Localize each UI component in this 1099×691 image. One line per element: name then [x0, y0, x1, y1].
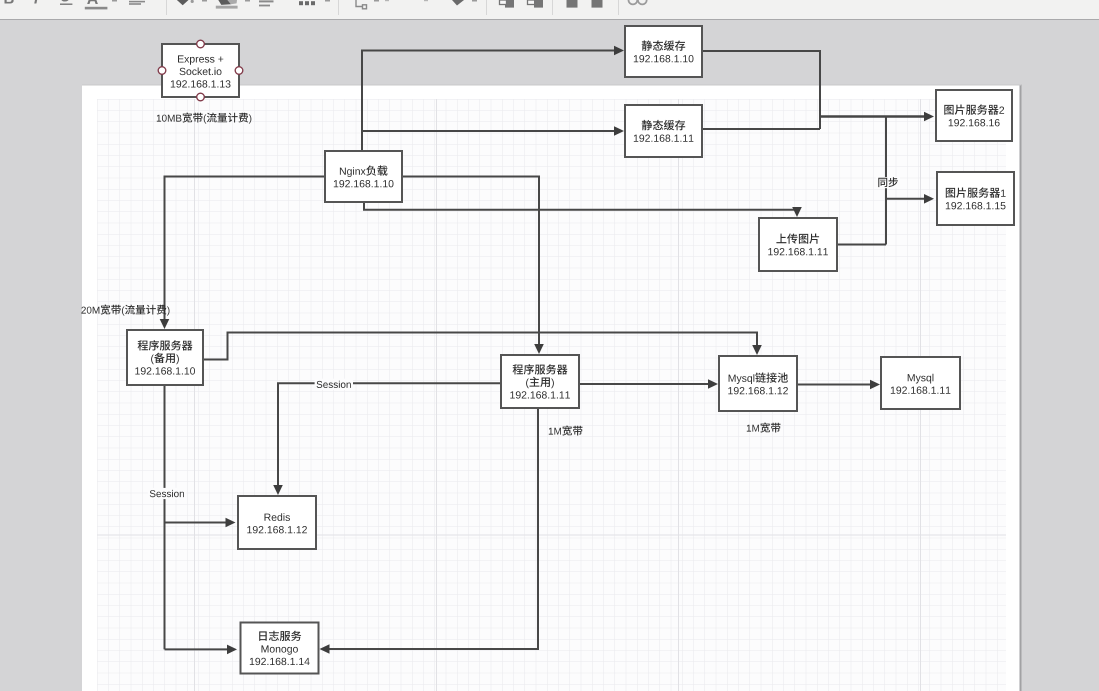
- toolbar icon group: [567, 0, 578, 8]
- node image-server-2: [936, 90, 1012, 141]
- wire nginx-left-to-backup: [165, 177, 326, 321]
- wire nginx-branch-to-cache2: [362, 130, 615, 132]
- wire nginx-bottom-to-upload: [364, 202, 797, 210]
- page sheet: [82, 85, 1022, 691]
- svg-text:B: B: [4, 0, 15, 8]
- label session-main: [315, 379, 353, 390]
- wire backup-down-spine: [164, 385, 166, 649]
- node log-server: [241, 623, 319, 674]
- label session-backup: [148, 488, 186, 499]
- node redis: [238, 496, 316, 549]
- arrowhead into mainserver top: [534, 344, 544, 354]
- arrowhead into pool top: [752, 345, 762, 355]
- svg-text:A: A: [87, 0, 99, 8]
- toolbar icon line color pencil: [216, 0, 238, 9]
- toolbar separator 4: [552, 0, 553, 15]
- node static-cache-2: [625, 105, 702, 157]
- label bandwidth-1m-pool: [747, 423, 781, 433]
- wire sync-vertical: [885, 117, 887, 245]
- wire merge-to-imgserver2: [820, 115, 924, 118]
- wire cache1-right-corner: [702, 51, 820, 129]
- node static-cache-1: [625, 26, 702, 77]
- toolbar icon line style dots: [299, 1, 315, 5]
- toolbar icon ungroup: [592, 0, 603, 8]
- node image-server-1: [937, 172, 1014, 225]
- wire spine-to-logserver: [165, 648, 229, 650]
- toolbar separator 2: [338, 0, 339, 15]
- arrowhead into upload top: [792, 207, 802, 217]
- arrowhead into pool left: [708, 379, 718, 389]
- toolbar icon remnant 1: [385, 0, 389, 1]
- arrowhead into mysql left: [870, 380, 880, 390]
- toolbar icon line width: [259, 0, 274, 6]
- toolbar separator 1: [166, 0, 167, 15]
- node app-server-backup: [127, 330, 203, 385]
- toolbar caret 6: [472, 0, 477, 2]
- arrowhead into logserver left: [227, 645, 237, 655]
- toolbar icon arrow style: [452, 0, 464, 6]
- wire cache2-right: [702, 128, 820, 130]
- node Express Socket.io: [158, 40, 243, 101]
- arrowhead into cache2: [614, 126, 624, 136]
- node nginx-lb: [325, 151, 402, 202]
- arrowhead into redis left: [226, 518, 236, 528]
- arrowhead into backupserver top: [160, 319, 170, 329]
- toolbar icon align: [129, 1, 145, 5]
- wire session-main-to-redis: [278, 383, 501, 488]
- label sync: [876, 177, 900, 188]
- toolbar separator 3: [486, 0, 487, 15]
- grid area: [97, 99, 1006, 691]
- wire upload-right-to-sync: [837, 244, 886, 246]
- toolbar caret 5: [374, 0, 379, 2]
- toolbar caret 2: [202, 0, 207, 2]
- wire branch-to-imgserver1: [886, 198, 925, 200]
- arrowhead into redis top: [273, 485, 283, 495]
- toolbar caret 4: [325, 0, 330, 2]
- label bandwidth-1m-main: [549, 426, 583, 436]
- node mysql: [881, 357, 960, 409]
- node upload-image: [759, 218, 837, 271]
- wire main-right-to-pool: [579, 383, 709, 385]
- node app-server-main: [501, 355, 579, 408]
- grid major page boundaries: [97, 99, 1006, 691]
- toolbar icon underline U: [60, 0, 72, 5]
- toolbar icon bring front: [500, 0, 515, 8]
- toolbar icon font color A: [85, 0, 108, 9]
- wire backup-right-to-pool: [203, 333, 757, 360]
- toolbar caret 1: [112, 0, 117, 2]
- toolbar icon link: [629, 0, 647, 4]
- wire pool-right-to-mysql: [797, 384, 871, 386]
- arrowhead into imgserver2: [924, 112, 934, 122]
- label bandwidth-10mb: [157, 113, 252, 124]
- arrowhead into cache1: [614, 46, 624, 56]
- toolbar background: [0, 0, 1099, 20]
- toolbar separator 5: [618, 0, 619, 15]
- wire nginx-up-to-cache1: [362, 51, 616, 152]
- toolbar caret 3: [245, 0, 250, 2]
- toolbar icon connector: [356, 0, 367, 9]
- node mysql-pool: [719, 356, 797, 411]
- toolbar icon fill color: [177, 0, 194, 5]
- wire main-down-to-logserver: [329, 408, 538, 649]
- label bandwidth-20m: [81, 305, 169, 316]
- toolbar icon send back: [528, 0, 544, 8]
- wire spine-branch-redis: [165, 522, 227, 524]
- toolbar icon remnant 2: [424, 0, 428, 1]
- wire nginx-right-to-main: [402, 177, 539, 346]
- arrowhead into logserver right: [320, 644, 330, 654]
- arrowhead into imgserver1: [924, 194, 934, 204]
